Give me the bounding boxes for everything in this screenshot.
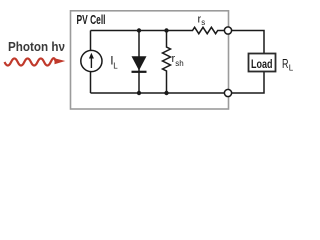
svg-text:Load: Load bbox=[251, 57, 273, 71]
svg-text:s: s bbox=[201, 18, 205, 27]
svg-text:PV Cell: PV Cell bbox=[77, 13, 106, 27]
svg-text:sh: sh bbox=[175, 59, 183, 68]
svg-text:Photon hν: Photon hν bbox=[8, 39, 65, 54]
svg-text:L: L bbox=[113, 61, 118, 70]
svg-text:R: R bbox=[282, 56, 289, 71]
svg-text:L: L bbox=[289, 63, 294, 72]
